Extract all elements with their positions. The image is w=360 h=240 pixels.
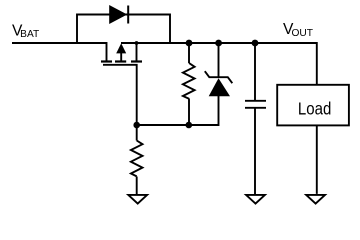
- svg-text:Load: Load: [298, 98, 331, 118]
- svg-text:BAT: BAT: [20, 29, 39, 40]
- svg-text:OUT: OUT: [292, 28, 314, 39]
